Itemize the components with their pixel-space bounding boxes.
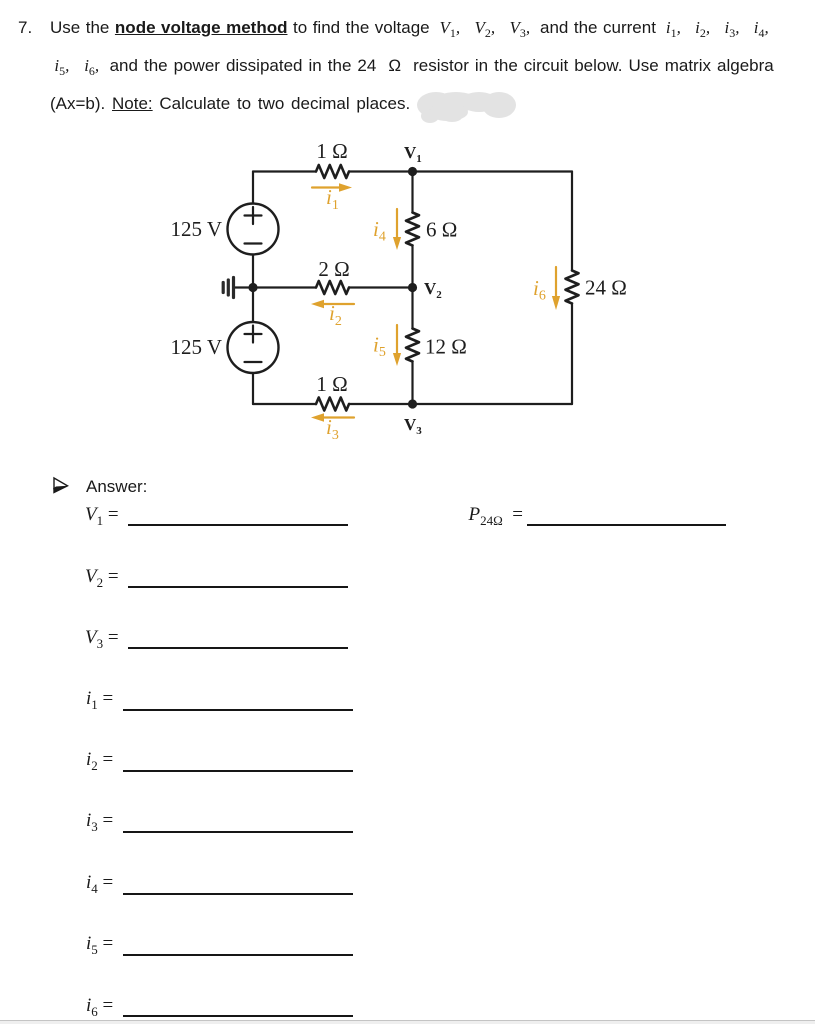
answer row V2 [85, 566, 119, 588]
VS1 minus sign [245, 242, 262, 244]
wire center column upper [411, 172, 413, 213]
node V3 dot [408, 399, 417, 408]
resistor R3 1-ohm bottom [316, 398, 349, 411]
Answer heading [86, 477, 147, 497]
wire mid-left [253, 286, 316, 288]
ground stem [235, 286, 253, 288]
resistor R5 12-ohm [406, 329, 419, 362]
answer row i4 [86, 872, 113, 894]
VS2 plus sign [245, 333, 262, 335]
wire left rail lower [252, 373, 254, 404]
current arrow i4 [396, 209, 398, 239]
answer row i2 [86, 749, 113, 771]
answer row P24 [469, 504, 524, 526]
current arrow i5 [396, 325, 398, 355]
resistor R6 24-ohm [566, 271, 579, 304]
problem header line 3 [50, 94, 410, 114]
wire bottom-right [349, 403, 572, 405]
answer row V1 [85, 504, 119, 526]
answer row V3 [85, 627, 119, 649]
VS1 plus sign [245, 214, 262, 216]
wire top-right [349, 170, 572, 172]
current arrow i6 [555, 267, 557, 298]
problem header line 1 [18, 18, 32, 38]
answer row i5 [86, 933, 113, 955]
VS2 minus sign [245, 361, 262, 363]
wire right rail lower [571, 305, 573, 405]
current arrow i2 [324, 303, 354, 305]
problem header line 2 [50, 56, 774, 76]
wire left rail upper [252, 172, 254, 204]
wire left rail between VS1 and mid [252, 255, 254, 288]
answer row i6 [86, 995, 113, 1017]
wire mid-right [349, 286, 413, 288]
resistor R2 2-ohm mid [316, 281, 349, 294]
ground bars [232, 278, 235, 298]
source VS1 circle [228, 204, 279, 255]
wire center column lower [411, 363, 413, 405]
answer row i1 [86, 688, 113, 710]
node V1 dot [408, 167, 417, 176]
node V2 dot [408, 283, 417, 292]
wire right rail upper [571, 172, 573, 271]
node mid-left dot [248, 283, 257, 292]
current arrow i3 [324, 416, 354, 418]
page bottom edge [0, 1020, 815, 1022]
source VS2 circle [228, 322, 279, 373]
wire bottom-left [253, 403, 316, 405]
resistor R4 6-ohm [406, 213, 419, 246]
wire center column mid [411, 247, 413, 288]
answer row i3 [86, 810, 113, 832]
current arrow i1 [312, 186, 341, 188]
resistor R1 1-ohm top [316, 165, 349, 178]
wire top-left [253, 170, 316, 172]
wire left rail below mid [252, 288, 254, 323]
